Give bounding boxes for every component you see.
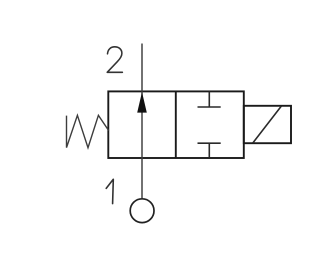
port 1 circle (130, 199, 154, 223)
valve body outline (2/2-way valve) (108, 91, 244, 158)
position divider line (175, 91, 177, 158)
flow arrowhead (137, 92, 147, 113)
label 2 (107, 47, 122, 73)
port 2 line (141, 44, 143, 92)
flow path shaft through left square (141, 91, 143, 158)
solenoid diagonal (253, 106, 282, 143)
solenoid box (244, 106, 291, 143)
blocked port T (top) (198, 91, 221, 107)
label 1 (106, 179, 113, 203)
port 1 line (141, 158, 143, 198)
blocked port T (bottom) (198, 143, 221, 158)
spring (return) (67, 115, 109, 147)
